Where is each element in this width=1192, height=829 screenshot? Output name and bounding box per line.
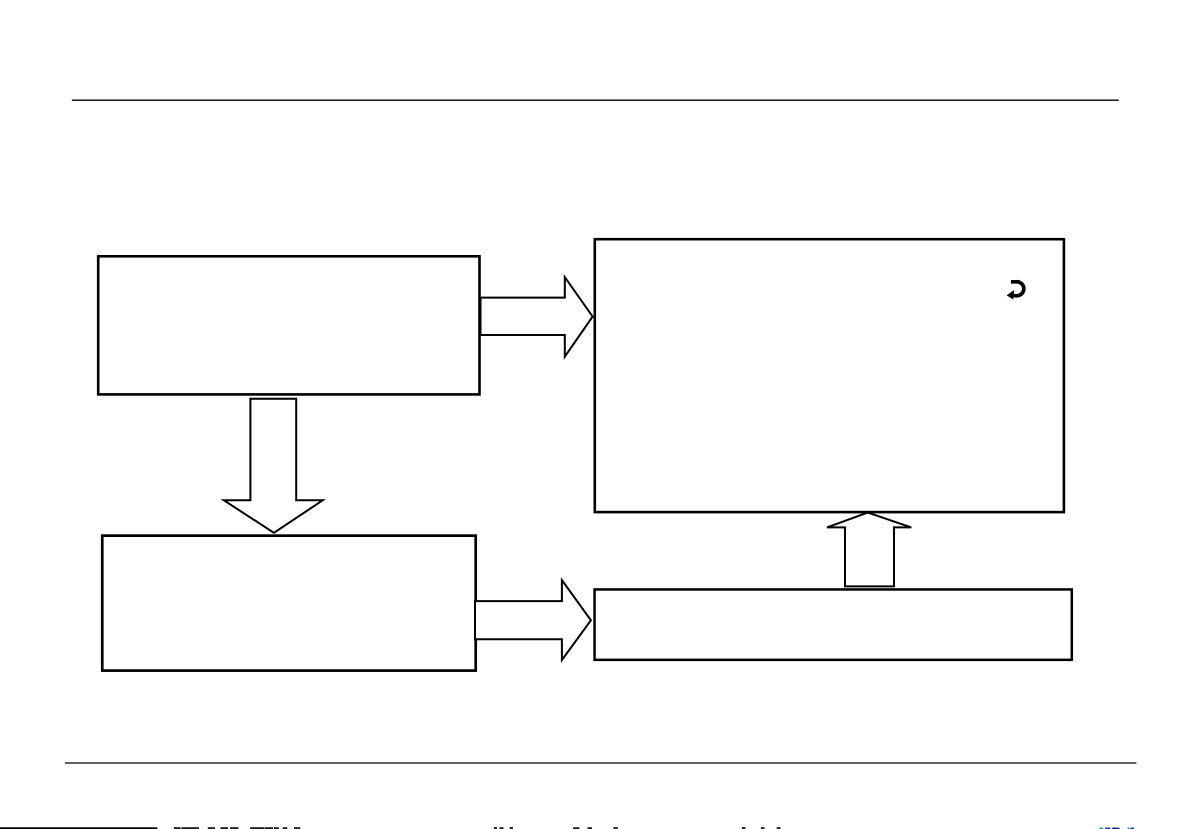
box B2 (large right block) xyxy=(595,239,1064,512)
footer rule xyxy=(65,762,1137,764)
header rule xyxy=(72,99,1119,101)
box B4 (wide bottom block) xyxy=(595,589,1072,659)
block arrow A1 (B1 to B2, rightward) xyxy=(481,277,593,357)
cut-off footer bar (bottom edge) xyxy=(0,827,157,829)
loop-back (u-turn) arrow icon inside box B2 xyxy=(1007,282,1024,300)
block arrow A2 (B1 to B3, downward) xyxy=(224,399,323,533)
block arrow A3 (B3 to B4, rightward) xyxy=(475,580,591,660)
box B1 (top-left block) xyxy=(98,256,479,394)
box B3 (lower-left block) xyxy=(102,536,475,671)
cut-off footer coloured fragments (right group) xyxy=(1099,828,1134,829)
block arrow A4 (B4 to B2, upward) xyxy=(827,513,911,587)
cut-off footer text fragments (tops of glyphs) xyxy=(174,827,781,829)
